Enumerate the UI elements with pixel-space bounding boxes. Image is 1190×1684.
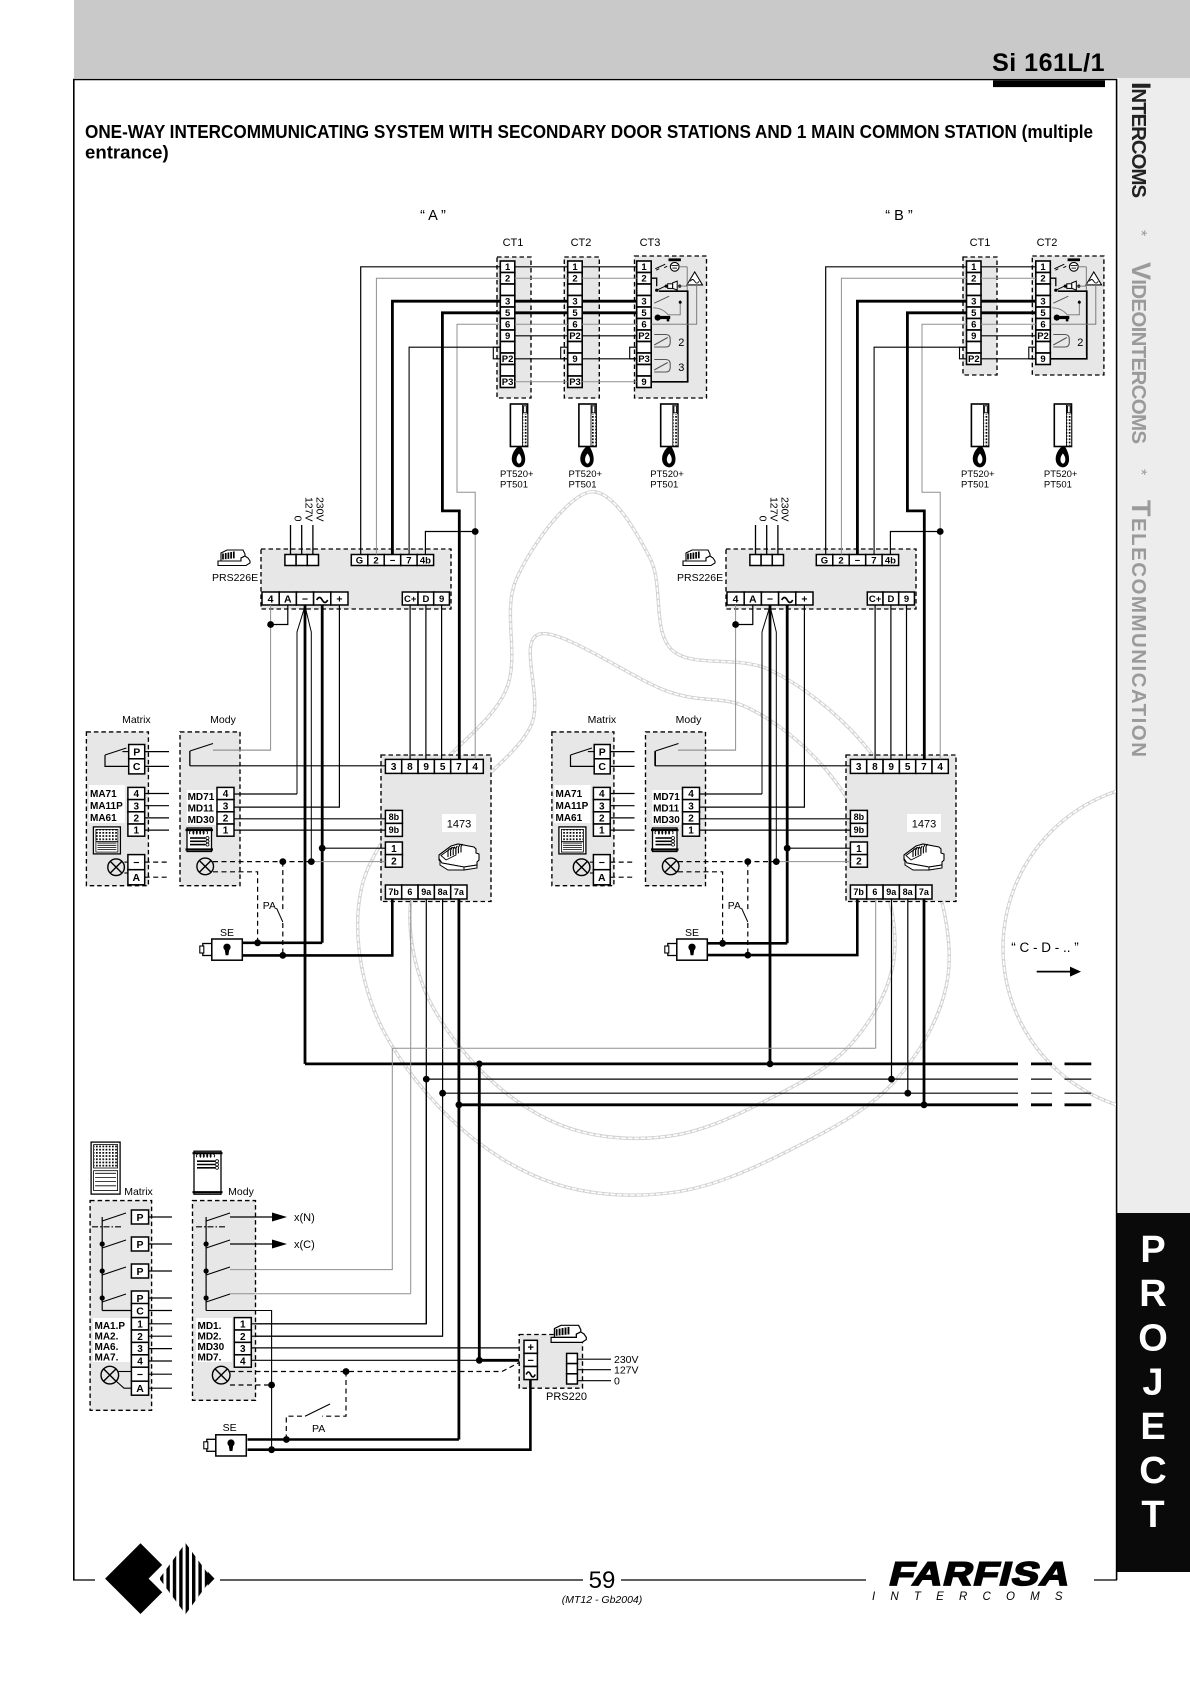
svg-text:“ B ”: “ B ” — [885, 208, 913, 224]
svg-text:3: 3 — [688, 801, 694, 812]
svg-text:“ A ”: “ A ” — [420, 208, 446, 224]
svg-text:6: 6 — [971, 320, 976, 331]
svg-text:PT520+: PT520+ — [569, 469, 603, 480]
svg-text:5: 5 — [440, 762, 446, 773]
svg-text:A: A — [136, 1383, 144, 1395]
svg-text:7: 7 — [456, 762, 462, 773]
svg-text:MA7.: MA7. — [95, 1353, 119, 1364]
svg-text:6: 6 — [572, 320, 577, 331]
svg-text:2: 2 — [572, 274, 577, 285]
svg-text:P: P — [599, 746, 606, 758]
svg-text:8a: 8a — [438, 887, 449, 897]
svg-text:7a: 7a — [454, 887, 465, 897]
svg-text:127V: 127V — [768, 497, 780, 522]
svg-text:5: 5 — [971, 308, 977, 319]
svg-text:MA11P: MA11P — [90, 801, 123, 812]
svg-text:A: A — [133, 872, 141, 884]
svg-text:MD1.: MD1. — [198, 1321, 222, 1332]
svg-text:2: 2 — [505, 274, 510, 285]
svg-text:Matrix: Matrix — [122, 714, 151, 726]
svg-text:A: A — [598, 872, 606, 884]
svg-text:INTERCOMS: INTERCOMS — [872, 1591, 1078, 1603]
svg-text:MD11: MD11 — [653, 804, 680, 815]
svg-text:P2: P2 — [968, 354, 980, 365]
svg-text:A: A — [749, 593, 757, 605]
svg-text:P2: P2 — [638, 331, 650, 342]
svg-text:R: R — [1139, 1273, 1166, 1315]
svg-text:*: * — [1132, 469, 1149, 475]
svg-text:9: 9 — [904, 594, 909, 605]
svg-text:P3: P3 — [502, 377, 514, 388]
svg-text:7b: 7b — [388, 887, 399, 897]
svg-text:CT2: CT2 — [571, 237, 592, 249]
svg-text:PT520+: PT520+ — [1044, 469, 1078, 480]
svg-text:C+: C+ — [869, 594, 882, 605]
svg-text:2: 2 — [971, 274, 976, 285]
svg-text:230V: 230V — [779, 497, 791, 522]
svg-text:MA71: MA71 — [556, 789, 583, 800]
svg-text:59: 59 — [589, 1567, 616, 1594]
svg-text:G: G — [821, 555, 828, 566]
svg-text:MD71: MD71 — [188, 792, 215, 803]
svg-text:0: 0 — [291, 516, 303, 522]
svg-text:5: 5 — [572, 308, 578, 319]
svg-text:3: 3 — [572, 297, 577, 308]
svg-text:CT1: CT1 — [970, 237, 991, 249]
svg-text:3: 3 — [391, 762, 397, 773]
svg-text:1: 1 — [971, 262, 977, 273]
svg-text:9a: 9a — [886, 887, 897, 897]
svg-text:2: 2 — [240, 1332, 246, 1343]
svg-text:2: 2 — [137, 1332, 143, 1343]
svg-text:PRS226E: PRS226E — [212, 572, 258, 584]
svg-text:3: 3 — [641, 297, 646, 308]
svg-text:8a: 8a — [903, 887, 914, 897]
svg-text:1: 1 — [391, 844, 397, 855]
svg-text:MD30: MD30 — [198, 1342, 225, 1353]
svg-text:−: − — [390, 555, 396, 566]
svg-text:3: 3 — [240, 1344, 246, 1355]
svg-text:3: 3 — [134, 801, 140, 812]
svg-text:2: 2 — [641, 274, 646, 285]
svg-text:2: 2 — [391, 857, 397, 868]
svg-text:2: 2 — [1040, 274, 1045, 285]
svg-text:−: − — [767, 593, 773, 605]
svg-text:PT501: PT501 — [961, 480, 989, 491]
svg-text:7a: 7a — [919, 887, 930, 897]
svg-text:MD30: MD30 — [653, 815, 680, 826]
svg-text:P: P — [133, 746, 140, 758]
svg-text:4: 4 — [223, 789, 229, 800]
svg-text:3: 3 — [505, 297, 510, 308]
svg-text:1473: 1473 — [912, 819, 936, 831]
svg-text:−: − — [527, 1355, 533, 1367]
svg-text:C: C — [598, 761, 606, 773]
svg-text:E: E — [1140, 1406, 1165, 1448]
svg-text:4b: 4b — [420, 555, 431, 566]
svg-text:P: P — [136, 1212, 143, 1224]
svg-text:+: + — [336, 593, 342, 605]
svg-text:1: 1 — [223, 826, 229, 837]
svg-text:PT501: PT501 — [1044, 480, 1072, 491]
svg-text:7: 7 — [406, 555, 411, 566]
svg-text:MD7.: MD7. — [198, 1353, 222, 1364]
svg-text:4: 4 — [599, 789, 605, 800]
svg-text:1: 1 — [505, 262, 511, 273]
svg-text:3: 3 — [856, 762, 862, 773]
svg-text:(MT12 - Gb2004): (MT12 - Gb2004) — [562, 1594, 643, 1606]
svg-text:x(C): x(C) — [294, 1239, 315, 1251]
svg-text:8: 8 — [407, 762, 413, 773]
svg-text:6: 6 — [641, 320, 646, 331]
svg-text:9: 9 — [971, 331, 976, 342]
svg-text:127V: 127V — [303, 497, 315, 522]
svg-text:CT2: CT2 — [1037, 237, 1058, 249]
svg-text:J: J — [1142, 1362, 1163, 1404]
svg-text:1: 1 — [688, 826, 694, 837]
svg-text:1: 1 — [240, 1319, 246, 1330]
svg-text:6: 6 — [505, 320, 510, 331]
svg-text:SE: SE — [220, 927, 234, 939]
svg-text:6: 6 — [872, 887, 877, 897]
svg-text:CT3: CT3 — [640, 237, 661, 249]
svg-text:C+: C+ — [404, 594, 417, 605]
svg-text:PT520+: PT520+ — [961, 469, 995, 480]
svg-text:MD11: MD11 — [188, 804, 215, 815]
svg-text:4: 4 — [134, 789, 140, 800]
svg-text:PT520+: PT520+ — [500, 469, 534, 480]
svg-text:ONE-WAY INTERCOMMUNICATING SYS: ONE-WAY INTERCOMMUNICATING SYSTEM WITH S… — [85, 121, 1093, 142]
svg-text:Mody: Mody — [676, 714, 702, 726]
svg-text:9: 9 — [572, 354, 577, 365]
svg-text:4: 4 — [733, 593, 739, 605]
svg-text:2: 2 — [856, 857, 862, 868]
svg-text:Mody: Mody — [210, 714, 236, 726]
svg-text:PRS226E: PRS226E — [677, 572, 723, 584]
svg-text:9: 9 — [439, 594, 444, 605]
svg-text:MA61: MA61 — [556, 813, 583, 824]
svg-text:*: * — [1132, 230, 1149, 236]
svg-text:P3: P3 — [638, 354, 650, 365]
svg-text:5: 5 — [905, 762, 911, 773]
svg-text:1473: 1473 — [447, 819, 471, 831]
svg-text:2: 2 — [134, 814, 140, 825]
svg-text:PA: PA — [312, 1423, 325, 1435]
svg-text:3: 3 — [223, 801, 229, 812]
svg-text:Si 161L/1: Si 161L/1 — [992, 49, 1105, 77]
svg-text:Mody: Mody — [228, 1186, 254, 1198]
svg-text:P2: P2 — [1037, 331, 1049, 342]
svg-text:1: 1 — [641, 262, 647, 273]
svg-text:2: 2 — [599, 814, 605, 825]
svg-text:9: 9 — [888, 762, 894, 773]
svg-text:4: 4 — [268, 593, 274, 605]
svg-text:P3: P3 — [569, 377, 581, 388]
svg-text:7: 7 — [921, 762, 927, 773]
svg-text:MA71: MA71 — [90, 789, 117, 800]
svg-text:PRS220: PRS220 — [546, 1391, 587, 1403]
svg-text:8b: 8b — [389, 812, 400, 822]
svg-text:entrance): entrance) — [85, 142, 169, 163]
svg-text:1: 1 — [134, 826, 140, 837]
svg-text:9: 9 — [423, 762, 429, 773]
svg-text:PT501: PT501 — [500, 480, 528, 491]
svg-text:−: − — [133, 857, 139, 869]
svg-text:9b: 9b — [854, 825, 865, 835]
svg-text:4: 4 — [137, 1357, 143, 1368]
svg-text:−: − — [137, 1369, 143, 1381]
svg-text:−: − — [302, 593, 308, 605]
svg-text:SE: SE — [685, 927, 699, 939]
svg-text:7: 7 — [871, 555, 876, 566]
svg-text:3: 3 — [1040, 297, 1045, 308]
svg-text:MD30: MD30 — [188, 815, 215, 826]
svg-text:C: C — [136, 1305, 144, 1317]
svg-text:8b: 8b — [854, 812, 865, 822]
svg-text:C: C — [1139, 1450, 1166, 1492]
svg-text:4: 4 — [688, 789, 694, 800]
svg-text:P: P — [136, 1239, 143, 1251]
svg-text:+: + — [801, 593, 807, 605]
svg-text:7b: 7b — [853, 887, 864, 897]
svg-text:230V: 230V — [314, 497, 326, 522]
svg-text:2: 2 — [223, 814, 229, 825]
svg-text:3: 3 — [599, 801, 605, 812]
svg-text:3: 3 — [137, 1344, 143, 1355]
svg-text:MA1.P: MA1.P — [95, 1321, 126, 1332]
svg-text:1: 1 — [137, 1319, 143, 1330]
svg-text:9: 9 — [1040, 354, 1045, 365]
svg-text:CT1: CT1 — [503, 237, 524, 249]
svg-text:PT501: PT501 — [569, 480, 597, 491]
svg-text:9: 9 — [641, 377, 646, 388]
svg-text:Matrix: Matrix — [124, 1186, 153, 1198]
svg-text:C: C — [133, 761, 141, 773]
svg-text:SE: SE — [223, 1422, 237, 1434]
svg-text:4: 4 — [937, 762, 943, 773]
svg-text:9b: 9b — [389, 825, 400, 835]
svg-text:4: 4 — [240, 1357, 246, 1368]
svg-text:5: 5 — [505, 308, 511, 319]
svg-text:8: 8 — [872, 762, 878, 773]
svg-text:0: 0 — [756, 516, 768, 522]
svg-text:D: D — [422, 594, 429, 605]
svg-text:4b: 4b — [885, 555, 896, 566]
svg-text:MA6.: MA6. — [95, 1342, 119, 1353]
svg-text:1: 1 — [572, 262, 578, 273]
svg-text:9a: 9a — [421, 887, 432, 897]
svg-text:x(N): x(N) — [294, 1212, 315, 1224]
svg-text:Matrix: Matrix — [588, 714, 617, 726]
svg-text:2: 2 — [678, 337, 684, 349]
svg-text:−: − — [855, 555, 861, 566]
svg-text:9: 9 — [505, 331, 510, 342]
svg-text:MA61: MA61 — [90, 813, 117, 824]
svg-text:D: D — [887, 594, 894, 605]
svg-text:P2: P2 — [502, 354, 514, 365]
svg-text:2: 2 — [373, 555, 378, 566]
svg-text:1: 1 — [599, 826, 605, 837]
svg-text:FARFISA: FARFISA — [886, 1555, 1076, 1592]
svg-text:MD71: MD71 — [653, 792, 680, 803]
svg-text:−: − — [599, 857, 605, 869]
svg-text:6: 6 — [407, 887, 412, 897]
svg-text:2: 2 — [838, 555, 843, 566]
svg-text:T: T — [1141, 1494, 1164, 1536]
svg-text:PT501: PT501 — [650, 480, 678, 491]
svg-text:6: 6 — [1040, 320, 1045, 331]
svg-text:2: 2 — [688, 814, 694, 825]
svg-text:P: P — [136, 1266, 143, 1278]
svg-text:PA: PA — [728, 900, 741, 912]
svg-text:MD2.: MD2. — [198, 1332, 222, 1343]
svg-text:O: O — [1138, 1317, 1168, 1359]
svg-text:1: 1 — [856, 844, 862, 855]
svg-text:“ C - D - .. ”: “ C - D - .. ” — [1011, 940, 1079, 955]
svg-text:G: G — [356, 555, 363, 566]
svg-text:5: 5 — [641, 308, 647, 319]
svg-text:1: 1 — [1040, 262, 1046, 273]
svg-text:5: 5 — [1040, 308, 1046, 319]
svg-text:A: A — [284, 593, 292, 605]
svg-text:MA11P: MA11P — [556, 801, 589, 812]
svg-text:P2: P2 — [569, 331, 581, 342]
svg-text:PA: PA — [263, 900, 276, 912]
svg-text:P: P — [1140, 1229, 1165, 1271]
svg-text:3: 3 — [971, 297, 976, 308]
svg-text:2: 2 — [1077, 337, 1083, 349]
svg-text:3: 3 — [678, 362, 684, 374]
svg-text:MA2.: MA2. — [95, 1332, 119, 1343]
svg-text:0: 0 — [614, 1376, 620, 1388]
svg-text:PT520+: PT520+ — [650, 469, 684, 480]
svg-text:4: 4 — [472, 762, 478, 773]
svg-text:+: + — [527, 1342, 533, 1354]
